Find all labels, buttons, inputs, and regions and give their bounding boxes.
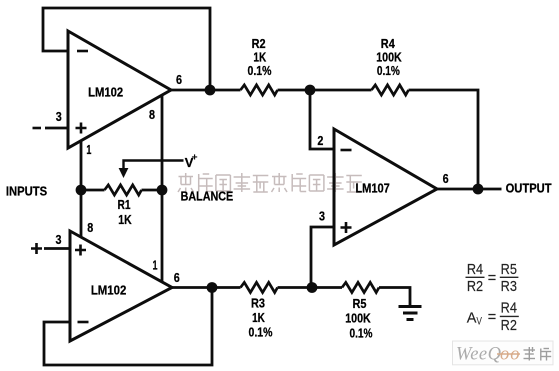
node: top junction dot [305,85,316,96]
svg-text:INPUTS: INPUTS [6,184,48,199]
wire: U2 feedback loop (inverting input, left, down, across bottom, up to output node) [44,288,212,366]
wire: U1 pin 8 down to balance rail [161,95,164,191]
watermark: 杭州将睿科技有限公司 (center, light gray) [178,173,362,192]
resistor R3 1K 0.1% [241,282,278,339]
svg-text:=: = [488,310,496,326]
input polarity plus [31,243,42,254]
svg-text:0.1%: 0.1% [377,63,400,78]
svg-text:R2: R2 [467,279,483,295]
svg-text:8: 8 [149,107,155,122]
svg-text:8: 8 [87,220,93,235]
svg-text:R4: R4 [501,301,517,317]
svg-text:1K: 1K [253,49,266,64]
svg-text:R5: R5 [501,262,517,278]
svg-text:R3: R3 [251,295,265,310]
node: U1 output dot [205,85,216,96]
svg-text:WeeQ: WeeQ [456,345,502,365]
svg-text:R2: R2 [501,318,517,334]
equation Av = R4/R2 [467,301,519,335]
resistor R5 100K 0.1% [342,282,379,340]
op-amp U3 LM107 [317,129,448,245]
op-amp U2 LM102 (bottom) [56,220,180,341]
svg-text:LM107: LM107 [355,181,390,196]
equation R4/R2 = R5/R3 [466,262,519,295]
ground [399,307,422,320]
wire: U2 pin 3 input stub [44,247,70,250]
svg-text:LM102: LM102 [88,84,123,99]
svg-text:OUTPUT: OUTPUT [506,180,552,195]
watermark: WeeQoo 维库 (bottom right) [453,341,554,365]
svg-text:2: 2 [317,133,323,148]
label V+ [185,152,198,171]
V+ wiper arrow [119,161,184,179]
svg-text:6: 6 [174,270,180,285]
wire: U1 output to R2 [171,89,241,92]
wire: R2 to R4 across top junction [278,89,372,92]
svg-text:1: 1 [153,257,158,272]
svg-text:6: 6 [176,72,182,87]
svg-text:1: 1 [86,142,91,157]
wire: U3 output to OUTPUT terminal [437,188,502,191]
wire: bottom junction up to U3 pin 3 [311,227,334,288]
svg-text:1K: 1K [118,212,132,227]
wire: R3 to R5 [278,286,343,289]
svg-text:R3: R3 [501,279,517,295]
wire: U1 pin 1 down to balance rail [80,141,83,191]
op-amp U1 LM102 (top) [56,31,182,157]
wire: U2 pin 8 up to balance rail [80,190,83,238]
svg-text:100K: 100K [345,310,371,325]
svg-text:R4: R4 [467,262,483,278]
svg-text:0.1%: 0.1% [350,325,373,340]
wire: R5 to ground [379,288,410,306]
wire: junction down to U3 pin 2 [310,90,334,149]
potentiometer R1 1K balance rail [81,185,162,227]
node: bottom-left output dot [207,282,218,293]
node: bottom junction dot [307,282,318,293]
node: balance rail right dot [157,185,168,196]
svg-text:0.1%: 0.1% [248,63,272,78]
wire: U2 output to R3 [172,286,241,289]
input polarity minus [33,127,42,130]
svg-text:1K: 1K [252,310,265,325]
svg-text:3: 3 [56,232,62,247]
svg-text:0.1%: 0.1% [249,325,273,340]
svg-text:+: + [192,152,198,164]
wire: U1 pin 3 input stub [45,127,68,130]
resistor R2 1K 0.1% [241,36,278,95]
svg-text:A: A [467,310,477,326]
wire: U2 pin 1 up to balance rail [161,190,164,283]
svg-text:=: = [488,271,496,287]
svg-text:3: 3 [56,109,62,124]
resistor R4 100K 0.1% [372,36,409,95]
node: output dot [473,184,484,195]
node: balance rail left dot [76,185,87,196]
wire: R4 to output node (right, down) [409,90,479,189]
svg-text:3: 3 [319,209,325,224]
svg-text:V: V [476,315,482,327]
svg-text:R5: R5 [353,296,367,311]
svg-text:LM102: LM102 [91,282,127,297]
svg-text:6: 6 [443,171,449,186]
svg-text:BALANCE: BALANCE [181,189,234,204]
wire: U1 feedback loop (output node up, across top, down to inverting input) [43,8,210,90]
svg-text:R1: R1 [118,197,131,212]
